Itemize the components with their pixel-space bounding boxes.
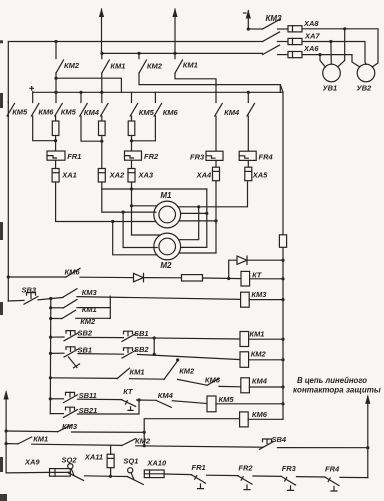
wire KM3 coil to rail: [249, 299, 283, 301]
svg-text:КМ2: КМ2: [179, 367, 195, 376]
wire rowD1 mid1: [78, 398, 122, 400]
contactor contact KM1 (aux y307.8): [51, 307, 63, 309]
node XA11 tap: [109, 475, 112, 478]
contactor contact KM3 (rung y431): [6, 430, 57, 433]
svg-text:КМ6: КМ6: [205, 376, 221, 385]
brake magnet YB1: [323, 64, 341, 82]
contactor contact KM6 (rowC): [207, 378, 219, 385]
contactor contact KM5 (row2 col8): [7, 102, 9, 104]
pushbutton SB2 (rowA): [51, 336, 64, 338]
wire XA8 to YB2 right: [302, 29, 378, 67]
pushbutton SB11: [50, 398, 63, 400]
svg-text:КМ4: КМ4: [84, 108, 100, 117]
wire resistor to KT coil: [203, 277, 242, 280]
node R1 branch: [197, 205, 200, 208]
wire rung mid: [32, 444, 122, 445]
svg-text:КМ3: КМ3: [266, 14, 283, 23]
thermal contact FR2: [238, 476, 252, 484]
thermal contact FR3: [282, 477, 296, 485]
node rowD1 bridge: [137, 398, 140, 401]
scan artifact bus dash: [0, 40, 3, 43]
node R2 branch: [205, 212, 208, 215]
node left rail KM6 row: [7, 275, 10, 278]
wire XA3 to M1 lead L1: [131, 182, 133, 235]
fuse XA10: [144, 470, 164, 478]
svg-text:КМ4: КМ4: [252, 377, 268, 386]
node busC col81: [79, 91, 82, 94]
motor M2: [154, 233, 181, 260]
node XA7-YB1: [329, 40, 332, 43]
contactor contact KM4 (row2 col81): [80, 92, 82, 102]
fuse XA9: [50, 469, 71, 477]
fuse XA5: [245, 167, 252, 181]
wire rowC to KM4 coil: [219, 385, 241, 387]
wire XA2 branch to M1 lead L2: [102, 189, 156, 212]
svg-text:КМ2: КМ2: [251, 350, 267, 359]
scan artifact left edge 4: [0, 457, 3, 472]
wire M1 lead R2 to XA2 line: [181, 212, 207, 214]
wire XA2 long line y189: [102, 182, 207, 189]
wire col32 join: [33, 116, 56, 141]
svg-text:КМ2: КМ2: [80, 317, 96, 326]
svg-text:SB3: SB3: [22, 285, 37, 294]
scan artifact left edge 1: [0, 93, 3, 108]
node col131 join: [131, 136, 133, 152]
node rail VD2: [281, 259, 284, 262]
svg-text:КМ1: КМ1: [249, 330, 264, 339]
node rowB bridge: [153, 353, 156, 356]
svg-text:М2: М2: [160, 261, 172, 270]
wire XA6 branch to YB1 left: [320, 55, 325, 67]
wire rowC mid2: [178, 379, 208, 385]
node KM2col-jog: [54, 77, 57, 80]
node L2-busB: [173, 52, 176, 55]
svg-text:УВ1: УВ1: [323, 84, 338, 93]
heater element col102: [101, 116, 103, 121]
node rail2 rowB: [49, 352, 52, 355]
contactor contact KM2 (aux y318.5): [51, 318, 62, 320]
node rail2 rowC: [49, 376, 52, 379]
svg-text:FR3: FR3: [282, 464, 297, 473]
svg-text:SQ1: SQ1: [123, 457, 138, 466]
svg-text:КМ1: КМ1: [33, 435, 48, 444]
node rail KM2: [281, 358, 284, 361]
wire KM1 coil to rail: [249, 338, 283, 340]
fuse XA2: [98, 169, 105, 183]
node col56 join: [55, 136, 57, 152]
node col102 join: [101, 136, 103, 169]
wire W84 from KM2 col139 to right rail: [139, 73, 280, 92]
wire branch to M2 lead L2: [123, 212, 157, 247]
svg-text:ХА7: ХА7: [304, 32, 320, 41]
wire XA3 to M2 lead L1: [132, 234, 161, 236]
svg-text:SB21: SB21: [79, 406, 98, 415]
wire bottom rung end: [340, 476, 368, 478]
wire parallel bridge x110.3: [109, 296, 111, 318]
wire M1 lead R3 to XA4: [179, 220, 216, 222]
phase feeder arrow L1: [101, 9, 103, 53]
wire bottom rung start: [6, 471, 49, 474]
svg-text:SB4: SB4: [272, 435, 287, 444]
fuse XA6: [288, 52, 302, 58]
wire rowA to KM1 coil: [138, 338, 241, 339]
node rail KM3: [281, 298, 284, 301]
svg-text:КМ1: КМ1: [183, 60, 198, 69]
node rail KT: [281, 277, 284, 280]
svg-text:FR2: FR2: [144, 152, 159, 161]
wire bus B y53.4: [102, 52, 263, 54]
wire KM3 rung to joint: [72, 431, 145, 433]
contactor contact KM6 (row2 col155): [154, 92, 156, 102]
node rail KM4: [281, 385, 284, 388]
svg-text:КМ4: КМ4: [224, 108, 240, 117]
wire jog KM1 col175 to col216: [175, 73, 216, 92]
wire KM6 coil feed: [144, 419, 239, 446]
node busC col248: [247, 91, 250, 94]
wire rowD1 mid2: [137, 399, 157, 401]
contactor contact (row2 col102): [101, 92, 103, 102]
wire SB3 to rail2: [38, 297, 63, 299]
node rail2 rowD1: [49, 397, 52, 400]
node L3-KM3: [247, 27, 250, 30]
svg-text:ХА10: ХА10: [146, 459, 167, 468]
svg-text:ХА5: ХА5: [252, 171, 268, 180]
wire XA1 to M1 lead L3: [56, 182, 156, 222]
wire bottom rung seg2: [85, 475, 111, 478]
svg-text:ХА9: ХА9: [24, 458, 40, 467]
contactor contact KM6 (row2 col32): [32, 92, 34, 102]
wire bus C y92.3: [33, 91, 283, 93]
svg-text:КМ6: КМ6: [38, 108, 54, 117]
svg-text:КМ4: КМ4: [158, 391, 174, 400]
phase feeder arrow L3: [247, 11, 249, 30]
svg-text:FR4: FR4: [259, 153, 274, 162]
wire bottom rung seg6: [297, 476, 326, 478]
lower left rail with up arrow: [5, 392, 7, 473]
svg-text:КМ6: КМ6: [163, 108, 179, 117]
svg-text:КТ: КТ: [123, 387, 134, 396]
relay coil KM6: [240, 412, 249, 427]
node XA8-YB1: [343, 27, 346, 30]
wire rowC lead: [50, 377, 117, 380]
svg-text:КМ1: КМ1: [130, 368, 145, 377]
contactor contact KM4 (rowD1): [156, 401, 171, 408]
svg-text:М1: М1: [160, 191, 172, 200]
node rung joint: [143, 444, 146, 447]
contactor contact KM2 (selfhold rowC): [164, 361, 178, 379]
svg-text:КМ5: КМ5: [139, 108, 155, 117]
contactor contact KM2 (top row, col139): [138, 53, 140, 58]
wire XA8 branch to YB1 right: [338, 29, 345, 67]
node rail KM1: [281, 338, 284, 341]
wire rowB mid: [78, 353, 124, 356]
node KT bypass: [227, 277, 230, 280]
thermal relay FR2: [125, 151, 142, 160]
fuse XA4: [213, 167, 220, 181]
node XA2 branch M2: [122, 211, 125, 214]
wire diode to resistor: [144, 277, 182, 279]
relay coil KM2: [240, 352, 249, 368]
svg-text:КМ6: КМ6: [252, 410, 268, 419]
right rail: [280, 85, 283, 420]
node rail KM12 rung: [5, 442, 8, 445]
wire KM3 stub y29: [248, 28, 262, 30]
fuse XA7: [288, 38, 302, 44]
thermal contact FR4: [325, 477, 339, 485]
svg-text:В цепь линейного: В цепь линейного: [297, 376, 367, 385]
relay coil KT: [241, 271, 250, 286]
node XA3 cross y189: [130, 187, 133, 190]
contactor contact KM6 (aux, y277): [8, 276, 66, 278]
relay coil KM4: [241, 378, 250, 393]
node busC col102: [100, 91, 103, 94]
svg-text:SB2: SB2: [78, 329, 93, 338]
svg-text:КМ3: КМ3: [251, 290, 267, 299]
wire VD2 to right rail: [247, 259, 283, 261]
contactor contact KM2 (rung y445.5): [122, 439, 136, 446]
wire SB4 to arrow column: [278, 447, 368, 449]
resistor R: [182, 275, 203, 281]
contactor contact KM3 (aux y296): [63, 289, 77, 298]
wire rowB to KM2 coil: [138, 354, 241, 359]
svg-text:ХА3: ХА3: [138, 171, 154, 180]
node busA-KM2col: [54, 40, 57, 43]
svg-text:КТ: КТ: [252, 271, 263, 280]
node rail2 KM2row: [49, 317, 52, 320]
contactor contact KM2 (top row, col56): [55, 42, 57, 59]
svg-text:КМ5: КМ5: [12, 108, 28, 117]
contactor contact KM1 (top row, col175): [174, 53, 176, 58]
thermal contact FR1: [192, 475, 206, 483]
node rail2 KM1row: [49, 306, 52, 309]
fuse XA11: [110, 471, 112, 477]
wire col155 join: [132, 116, 156, 141]
thermal relay FR3: [206, 151, 223, 160]
relay coil KM3: [241, 292, 250, 307]
svg-text:КМ5: КМ5: [219, 395, 235, 404]
wire rowC mid1: [130, 378, 165, 381]
svg-text:ХА4: ХА4: [196, 171, 212, 180]
thermal relay FR4: [239, 151, 256, 160]
wire FR4-XA5: [247, 160, 249, 167]
svg-text:FR2: FR2: [238, 464, 253, 473]
pushbutton SB1 (rowB): [51, 352, 65, 354]
node L1-busB: [100, 52, 103, 55]
wire FR3-XA4: [215, 160, 217, 167]
wire KM6 coil to rail: [248, 418, 283, 420]
contactor contact KM3 (3-pole): [263, 20, 280, 30]
contactor contact KM4 (row2 col216): [215, 92, 217, 102]
contactor contact (row2 col248): [247, 92, 249, 102]
svg-text:КМ1: КМ1: [82, 305, 97, 314]
motor M1: [154, 201, 181, 228]
wire bottom rung seg5: [253, 475, 282, 477]
node R3 branch: [214, 219, 217, 222]
wire KM6 row to diode: [80, 276, 134, 278]
relay coil KM1: [240, 332, 249, 347]
wire col81 join: [81, 116, 102, 141]
node rowA bridge: [153, 336, 156, 339]
node rail2 rowA: [49, 336, 52, 339]
plus mark: [30, 87, 33, 90]
wire KM2 coil to rail: [249, 359, 283, 361]
wire KM3 row to KM3 coil: [77, 297, 241, 300]
contactor contact KM5 (row2 col56): [55, 92, 57, 102]
svg-text:ХА8: ХА8: [303, 19, 319, 28]
svg-text:КМ2: КМ2: [64, 61, 80, 70]
node rail2 top: [49, 297, 52, 300]
scan artifact left edge 3: [0, 302, 3, 315]
pushbutton SB1 (rowA): [122, 334, 136, 342]
wire rowA mid: [78, 336, 124, 338]
diode VD2: [237, 256, 247, 264]
wire branch to M2 lead R1: [179, 207, 199, 240]
svg-text:УВ2: УВ2: [357, 84, 372, 93]
rail2 vertical: [49, 299, 52, 414]
node busC col56: [54, 91, 57, 94]
limit switch SQ2: [68, 471, 71, 473]
node KM3 rung joint: [143, 431, 146, 434]
fuse XA8: [288, 26, 302, 32]
svg-text:SB1: SB1: [134, 329, 149, 338]
node XA1 branch: [111, 220, 114, 223]
wire XA7 to YB2 center: [302, 42, 366, 65]
contactor contact KM5 (row2 col131): [131, 92, 133, 102]
svg-text:SQ2: SQ2: [62, 456, 78, 465]
heater element col56: [55, 116, 57, 121]
svg-text:КМ6: КМ6: [65, 268, 81, 277]
wire KM4 coil to rail: [249, 386, 283, 388]
node arrow column: [366, 446, 369, 449]
svg-text:ХА1: ХА1: [61, 171, 77, 180]
wire XA4 down to M2 lead R3: [179, 181, 216, 253]
svg-text:SB2: SB2: [134, 345, 149, 354]
wire XA2 line down to M2 lead R2: [181, 189, 207, 247]
pushbutton SB21: [50, 413, 63, 415]
svg-text:FR1: FR1: [192, 463, 206, 472]
thermal relay FR1: [47, 151, 65, 160]
relay coil KM5: [207, 396, 216, 412]
svg-text:КМ3: КМ3: [82, 288, 98, 297]
wire KT to right rail: [250, 278, 283, 280]
scan artifact left edge 2: [0, 222, 3, 240]
pushbutton SB3: [8, 299, 24, 302]
rail fuse: [279, 235, 286, 248]
wire XA7 branch to YB1 center: [330, 42, 332, 65]
contactor contact KM1 (selfhold rowC): [117, 368, 129, 378]
svg-text:КМ3: КМ3: [62, 422, 78, 431]
svg-text:КМ2: КМ2: [147, 62, 163, 71]
node XA6-YB1: [318, 53, 321, 56]
phase feeder arrow L2: [174, 9, 176, 53]
wire jog y78.2: [56, 78, 121, 92]
fuse XA3: [128, 169, 135, 183]
brake magnet YB2: [357, 64, 375, 82]
scan artifact corner: [0, 494, 7, 501]
node rail KM3 rung: [5, 429, 8, 432]
svg-text:SB11: SB11: [79, 391, 97, 400]
time relay contact KT: [122, 400, 136, 407]
wire bridge rowA-rowB: [153, 338, 155, 354]
wire bottom rung seg4: [207, 474, 239, 476]
node KM2 selfhold tap: [176, 358, 179, 361]
svg-text:контактора защиты: контактора защиты: [293, 386, 381, 395]
wire protection arrow: [367, 397, 369, 478]
node KM2col-busB: [137, 52, 140, 55]
svg-text:КМ2: КМ2: [135, 437, 151, 446]
svg-text:FR3: FR3: [190, 153, 205, 162]
wire FR1-XA1: [55, 160, 57, 168]
limit switch SQ1: [111, 475, 128, 477]
svg-text:ХА11: ХА11: [84, 452, 103, 461]
contactor contact KM1 (rung y444): [6, 443, 18, 445]
wire rowD2 to bridge: [78, 400, 140, 414]
pushbutton SB4: [260, 442, 274, 450]
heater element col131: [131, 116, 133, 121]
diode VD1: [134, 273, 144, 281]
node rail KM5: [281, 402, 284, 405]
wire M1 lead R1 to XA5: [178, 182, 248, 207]
svg-text:ХА2: ХА2: [109, 171, 125, 180]
svg-text:КМ1: КМ1: [110, 62, 125, 71]
wire rung to SB4: [136, 446, 264, 447]
svg-text:SB1: SB1: [78, 346, 93, 355]
wire FR2-XA3: [131, 160, 133, 168]
contactor contact KM1 (top row, col102): [101, 53, 103, 58]
wire branch to M2 lead L3: [113, 222, 157, 255]
wire bottom rung seg3: [164, 473, 191, 476]
wire KM5 coil to rail: [216, 403, 283, 405]
pushbutton SB2 (rowB): [122, 350, 136, 358]
wire bypass up: [229, 260, 237, 278]
wire rowD1 to KM5 coil: [172, 401, 207, 404]
wire XA6 to YB2 left: [302, 55, 360, 67]
fuse XA1: [52, 169, 59, 183]
svg-text:FR1: FR1: [67, 152, 81, 161]
svg-text:ХА6: ХА6: [303, 44, 319, 53]
svg-text:КМ5: КМ5: [61, 108, 77, 117]
svg-text:FR4: FR4: [325, 465, 340, 474]
wire bus A y41.5: [8, 42, 262, 302]
